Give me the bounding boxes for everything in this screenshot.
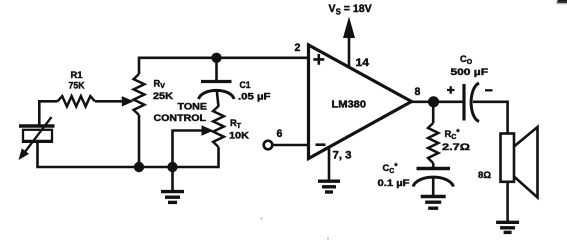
speck — [261, 218, 263, 220]
wire: top rail from Rv top to pin 2 — [139, 58, 309, 74]
svg-text:6: 6 — [277, 128, 283, 140]
plus input symbol — [313, 54, 324, 65]
capacitor Cc 0.1uF — [432, 163, 435, 167]
capacitor C0 500uF electrolytic — [462, 84, 465, 121]
ground (op-amp pins 7,3) — [328, 147, 331, 181]
speaker 8 ohm — [501, 134, 515, 182]
wire: R1 to Rv wiper arrow — [95, 100, 124, 103]
svg-text:CC*: CC* — [383, 162, 399, 175]
wire: bottom rail from cartridge to RT bottom — [38, 142, 219, 168]
node: junction dot ground / RT wiper — [167, 162, 177, 172]
svg-text:10K: 10K — [229, 129, 249, 140]
svg-text:75K: 75K — [69, 81, 85, 92]
ground (input stage) — [171, 167, 174, 192]
svg-text:8: 8 — [415, 86, 421, 98]
minus polarity mark — [485, 89, 493, 91]
ceramic cartridge (crystal pickup) — [19, 124, 55, 127]
svg-text:CO: CO — [460, 53, 473, 66]
wire: Rv bottom lead — [138, 115, 141, 167]
svg-text:RT: RT — [230, 117, 242, 130]
potentiometer Rv 25K — [134, 74, 145, 115]
svg-text:CONTROL: CONTROL — [154, 112, 207, 123]
svg-text:.05 µF: .05 µF — [238, 91, 271, 102]
wire: output pin 8 — [410, 101, 463, 104]
node: output junction dot — [428, 96, 439, 107]
svg-text:C1: C1 — [240, 79, 251, 90]
svg-text:VS = 18V: VS = 18V — [329, 3, 372, 17]
resistor R1 — [58, 96, 96, 106]
wire: speaker to ground — [506, 182, 509, 222]
ground (Cc) — [432, 195, 435, 198]
node: junction dot top rail / C1 — [211, 53, 221, 63]
wire: pin 6 input — [272, 144, 308, 147]
svg-text:RV: RV — [154, 77, 166, 90]
svg-text:0.1 µF: 0.1 µF — [378, 177, 410, 188]
potentiometer RT 10K — [213, 106, 224, 147]
wire: RT wiper to ground junction — [173, 131, 204, 168]
capacitor C1 .05uF — [215, 58, 218, 80]
svg-text:7, 3: 7, 3 — [333, 150, 352, 162]
Vs supply arrow — [348, 30, 351, 67]
svg-text:25K: 25K — [153, 90, 173, 101]
svg-text:2: 2 — [295, 42, 301, 54]
wire: cartridge top lead to R1 — [39, 101, 57, 125]
svg-text:8Ω: 8Ω — [478, 169, 491, 180]
svg-text:500 µF: 500 µF — [451, 66, 489, 77]
scan artifact bar (top right corner) — [558, 0, 567, 3]
svg-text:14: 14 — [356, 57, 370, 69]
wire: C0 to speaker — [473, 102, 508, 134]
svg-text:TONE: TONE — [178, 101, 208, 112]
svg-text:R1: R1 — [71, 70, 84, 81]
minus input symbol — [316, 143, 326, 146]
ground (speaker) — [506, 221, 509, 224]
resistor Rc 2.7ohm — [432, 102, 435, 123]
plus polarity mark — [447, 86, 454, 93]
svg-text:2.7Ω: 2.7Ω — [442, 141, 471, 152]
op-amp U1 LM380 triangle — [309, 45, 412, 159]
input terminal circle (pin 6) — [264, 141, 273, 150]
node: junction dot Rv bottom — [134, 162, 144, 172]
svg-text:LM380: LM380 — [332, 99, 367, 110]
svg-text:RC*: RC* — [445, 128, 461, 141]
